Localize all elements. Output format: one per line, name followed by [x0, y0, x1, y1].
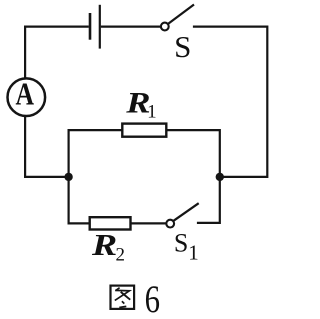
svg-text:1: 1 [188, 241, 199, 265]
node right junction dot [216, 173, 224, 181]
battery (long positive plate) [99, 5, 101, 49]
switch S blade [168, 5, 194, 24]
resistor R2 box [90, 217, 131, 229]
wire battery to switch S [101, 26, 161, 28]
switch S pivot circle [161, 23, 169, 31]
svg-text:S: S [174, 228, 188, 257]
wire switch S1 to right node [197, 181, 220, 223]
svg-text:S: S [174, 29, 191, 64]
wire resistor R2 to switch S1 [131, 222, 167, 224]
wire ammeter bottom down to left node [25, 116, 65, 177]
wire resistor R1 to right node [167, 130, 220, 173]
node left junction dot [64, 173, 72, 181]
resistor R1 box [122, 124, 166, 137]
switch S1 blade [174, 203, 199, 221]
wire top-left segment (left corner to battery) [25, 27, 89, 79]
wire switch S to top-right corner and down right side to right node [193, 27, 267, 177]
ammeter A circle [8, 78, 46, 116]
svg-text:R: R [91, 227, 117, 262]
svg-text:2: 2 [116, 245, 126, 266]
switch S1 pivot circle [166, 220, 174, 228]
battery (short negative plate) [89, 13, 92, 40]
svg-text:6: 6 [145, 278, 160, 319]
svg-text:1: 1 [147, 102, 157, 123]
caption character 图 (drawn) [111, 286, 135, 309]
svg-text:A: A [15, 75, 34, 111]
wire left node down to resistor R2 [69, 181, 90, 224]
wire left node up to resistor R1 [69, 130, 122, 173]
